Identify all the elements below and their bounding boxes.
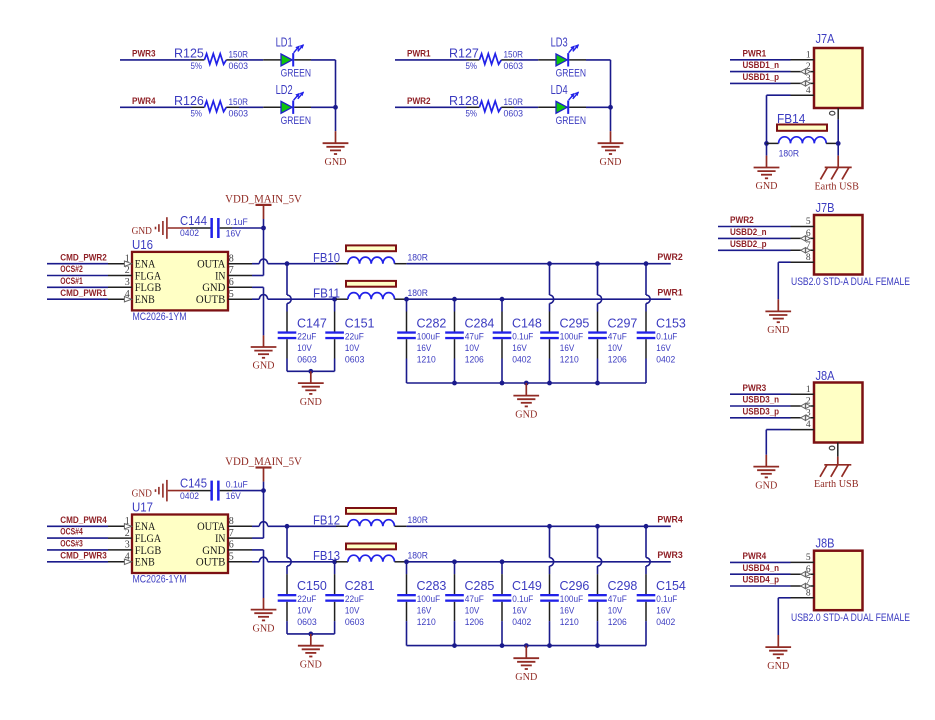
svg-text:ENA: ENA: [135, 521, 156, 533]
svg-text:MC2026-1YM: MC2026-1YM: [133, 311, 187, 323]
svg-text:GREEN: GREEN: [556, 115, 586, 127]
svg-text:C144: C144: [180, 214, 207, 228]
svg-text:GREEN: GREEN: [281, 68, 311, 80]
svg-text:GND: GND: [132, 226, 153, 237]
svg-text:OCS#1: OCS#1: [60, 276, 83, 287]
svg-text:0402: 0402: [512, 355, 531, 365]
svg-text:USBD4_n: USBD4_n: [743, 563, 780, 574]
svg-text:10V: 10V: [608, 606, 623, 616]
svg-text:FB11: FB11: [313, 287, 340, 301]
svg-text:22uF: 22uF: [297, 331, 316, 341]
svg-text:3: 3: [125, 540, 130, 551]
svg-text:150R: 150R: [229, 50, 249, 60]
svg-text:GND: GND: [755, 480, 777, 491]
svg-text:7: 7: [229, 265, 234, 276]
svg-text:GND: GND: [767, 661, 789, 672]
svg-text:8: 8: [229, 253, 234, 264]
svg-text:16V: 16V: [417, 343, 432, 353]
svg-text:USB2.0 STD-A DUAL FEMALE: USB2.0 STD-A DUAL FEMALE: [791, 612, 910, 624]
svg-text:ENB: ENB: [135, 294, 155, 306]
svg-text:PWR3: PWR3: [743, 383, 767, 394]
svg-text:10V: 10V: [465, 606, 480, 616]
svg-text:47uF: 47uF: [608, 331, 627, 341]
svg-text:5%: 5%: [191, 61, 203, 71]
svg-text:CMD_PWR1: CMD_PWR1: [60, 288, 107, 299]
svg-text:FLGA: FLGA: [135, 533, 162, 545]
svg-text:CMD_PWR2: CMD_PWR2: [60, 252, 107, 263]
svg-text:2: 2: [125, 528, 130, 539]
svg-text:PWR4: PWR4: [657, 514, 683, 525]
svg-text:LD1: LD1: [276, 36, 293, 50]
svg-text:LD2: LD2: [276, 83, 293, 97]
svg-text:PWR4: PWR4: [132, 96, 156, 107]
svg-text:OUTB: OUTB: [196, 557, 226, 569]
svg-text:1206: 1206: [608, 617, 627, 627]
svg-text:U16: U16: [132, 238, 153, 252]
svg-text:1210: 1210: [417, 355, 436, 365]
svg-text:C151: C151: [345, 316, 375, 330]
svg-text:47uF: 47uF: [465, 594, 484, 604]
svg-text:180R: 180R: [779, 148, 800, 158]
svg-text:Earth USB: Earth USB: [814, 478, 859, 490]
svg-text:0603: 0603: [229, 61, 249, 71]
svg-text:16V: 16V: [512, 343, 527, 353]
svg-text:6: 6: [229, 540, 234, 551]
svg-text:C297: C297: [608, 316, 638, 330]
svg-text:180R: 180R: [408, 515, 429, 525]
svg-text:16V: 16V: [560, 606, 575, 616]
svg-text:0603: 0603: [229, 108, 249, 118]
svg-text:2: 2: [125, 265, 130, 276]
svg-text:16V: 16V: [417, 606, 432, 616]
svg-text:CMD_PWR4: CMD_PWR4: [60, 515, 107, 526]
svg-text:0402: 0402: [180, 228, 199, 238]
svg-text:0.1uF: 0.1uF: [512, 594, 533, 604]
svg-text:GND: GND: [515, 409, 537, 420]
svg-text:180R: 180R: [408, 288, 429, 298]
svg-text:0.1uF: 0.1uF: [226, 217, 248, 228]
svg-text:1210: 1210: [560, 355, 579, 365]
svg-text:FB14: FB14: [777, 112, 805, 126]
svg-text:0402: 0402: [656, 355, 675, 365]
svg-text:PWR3: PWR3: [657, 550, 682, 561]
svg-text:C283: C283: [417, 579, 447, 593]
svg-text:150R: 150R: [504, 97, 524, 107]
svg-text:C296: C296: [560, 579, 590, 593]
svg-text:5: 5: [229, 289, 234, 300]
svg-text:R127: R127: [449, 46, 479, 60]
svg-text:FLGB: FLGB: [135, 545, 162, 557]
svg-text:16V: 16V: [226, 491, 241, 501]
svg-text:IN: IN: [215, 533, 226, 545]
svg-text:CMD_PWR3: CMD_PWR3: [60, 550, 107, 561]
svg-text:22uF: 22uF: [345, 594, 364, 604]
svg-text:0603: 0603: [297, 355, 317, 365]
svg-text:3: 3: [125, 277, 130, 288]
svg-text:10V: 10V: [297, 343, 312, 353]
svg-text:4: 4: [806, 86, 811, 96]
svg-text:LD3: LD3: [551, 36, 568, 50]
svg-text:GND: GND: [253, 623, 275, 634]
svg-text:USBD3_n: USBD3_n: [743, 395, 780, 406]
svg-text:MC2026-1YM: MC2026-1YM: [133, 574, 187, 586]
svg-text:5%: 5%: [466, 108, 478, 118]
svg-text:GND: GND: [202, 282, 225, 294]
svg-text:5: 5: [229, 552, 234, 563]
svg-text:0402: 0402: [656, 617, 675, 627]
svg-text:150R: 150R: [504, 50, 524, 60]
svg-text:10V: 10V: [345, 343, 360, 353]
svg-text:FB13: FB13: [313, 549, 340, 563]
svg-text:16V: 16V: [656, 343, 671, 353]
svg-text:5%: 5%: [191, 108, 203, 118]
svg-text:C150: C150: [297, 579, 327, 593]
svg-text:16V: 16V: [512, 606, 527, 616]
svg-text:0603: 0603: [504, 61, 524, 71]
svg-text:R126: R126: [174, 94, 204, 108]
svg-text:OUTB: OUTB: [196, 294, 226, 306]
svg-text:5: 5: [806, 217, 811, 227]
svg-text:ENA: ENA: [135, 259, 156, 271]
svg-text:IN: IN: [215, 270, 226, 282]
svg-text:6: 6: [229, 277, 234, 288]
svg-text:GREEN: GREEN: [281, 115, 311, 127]
svg-text:USBD4_p: USBD4_p: [743, 575, 780, 586]
svg-text:PWR1: PWR1: [743, 48, 767, 59]
svg-text:PWR2: PWR2: [407, 96, 431, 107]
svg-text:16V: 16V: [656, 606, 671, 616]
svg-text:GND: GND: [202, 545, 225, 557]
svg-text:GND: GND: [300, 659, 322, 670]
svg-text:GND: GND: [253, 361, 275, 372]
svg-text:Earth USB: Earth USB: [814, 181, 859, 193]
svg-text:OUTA: OUTA: [197, 259, 226, 271]
svg-text:GND: GND: [756, 181, 778, 192]
svg-text:0603: 0603: [345, 617, 365, 627]
svg-text:USBD3_p: USBD3_p: [743, 406, 780, 417]
svg-text:PWR3: PWR3: [132, 49, 156, 60]
svg-text:C298: C298: [608, 579, 638, 593]
svg-text:FB10: FB10: [313, 251, 340, 265]
svg-text:C284: C284: [465, 316, 495, 330]
svg-text:5: 5: [806, 553, 811, 563]
svg-text:10V: 10V: [465, 343, 480, 353]
svg-text:C285: C285: [465, 579, 495, 593]
svg-text:0402: 0402: [180, 491, 199, 501]
svg-text:0603: 0603: [345, 355, 365, 365]
svg-text:10V: 10V: [608, 343, 623, 353]
svg-text:GREEN: GREEN: [556, 68, 586, 80]
svg-text:C282: C282: [417, 316, 447, 330]
svg-text:GND: GND: [300, 397, 322, 408]
svg-text:J8B: J8B: [816, 537, 835, 551]
svg-text:C145: C145: [180, 476, 207, 490]
svg-text:C154: C154: [656, 579, 686, 593]
svg-text:100uF: 100uF: [417, 594, 441, 604]
svg-text:0.1uF: 0.1uF: [656, 594, 677, 604]
svg-text:180R: 180R: [408, 551, 429, 561]
svg-text:C295: C295: [560, 316, 590, 330]
svg-text:USBD2_p: USBD2_p: [730, 239, 767, 250]
svg-text:1: 1: [806, 385, 811, 395]
svg-text:USBD1_n: USBD1_n: [743, 60, 780, 71]
svg-text:FB12: FB12: [313, 514, 340, 528]
svg-text:FLGB: FLGB: [135, 282, 162, 294]
svg-text:16V: 16V: [560, 343, 575, 353]
svg-text:OCS#2: OCS#2: [60, 264, 83, 275]
svg-text:C281: C281: [345, 579, 375, 593]
svg-text:10V: 10V: [297, 606, 312, 616]
svg-text:16V: 16V: [226, 228, 241, 238]
svg-text:J7B: J7B: [816, 201, 835, 215]
svg-text:LD4: LD4: [551, 83, 568, 97]
svg-text:GND: GND: [600, 157, 622, 168]
svg-text:R128: R128: [449, 94, 479, 108]
svg-text:0402: 0402: [512, 617, 531, 627]
svg-text:1206: 1206: [608, 355, 627, 365]
svg-text:0.1uF: 0.1uF: [226, 480, 248, 491]
svg-text:R125: R125: [174, 46, 204, 60]
svg-text:22uF: 22uF: [345, 331, 364, 341]
svg-text:FLGA: FLGA: [135, 270, 162, 282]
svg-text:150R: 150R: [229, 97, 249, 107]
svg-text:GND: GND: [767, 325, 789, 336]
svg-text:22uF: 22uF: [297, 594, 316, 604]
svg-text:GND: GND: [132, 489, 153, 500]
svg-text:PWR4: PWR4: [743, 551, 767, 562]
svg-text:0603: 0603: [504, 108, 524, 118]
svg-text:USBD1_p: USBD1_p: [743, 72, 780, 83]
svg-text:0.1uF: 0.1uF: [656, 331, 677, 341]
svg-text:J7A: J7A: [816, 32, 836, 46]
svg-text:47uF: 47uF: [608, 594, 627, 604]
svg-text:C153: C153: [656, 316, 686, 330]
svg-text:0.1uF: 0.1uF: [512, 331, 533, 341]
svg-text:8: 8: [806, 253, 811, 263]
svg-text:5%: 5%: [466, 61, 478, 71]
svg-text:C148: C148: [512, 316, 542, 330]
svg-text:1210: 1210: [560, 617, 579, 627]
svg-text:USBD2_n: USBD2_n: [730, 227, 767, 238]
svg-text:100uF: 100uF: [560, 594, 584, 604]
svg-text:8: 8: [229, 516, 234, 527]
svg-text:1206: 1206: [465, 355, 484, 365]
svg-text:1: 1: [806, 50, 811, 60]
svg-text:PWR2: PWR2: [657, 252, 682, 263]
svg-text:1210: 1210: [417, 617, 436, 627]
svg-text:USB2.0 STD-A DUAL FEMALE: USB2.0 STD-A DUAL FEMALE: [791, 276, 910, 288]
svg-text:J8A: J8A: [816, 369, 836, 383]
svg-text:OCS#4: OCS#4: [60, 527, 83, 538]
svg-text:7: 7: [229, 528, 234, 539]
svg-text:GND: GND: [515, 672, 537, 683]
svg-text:8: 8: [806, 588, 811, 598]
svg-text:100uF: 100uF: [417, 331, 441, 341]
svg-text:PWR2: PWR2: [730, 215, 754, 226]
svg-text:100uF: 100uF: [560, 331, 584, 341]
svg-text:1206: 1206: [465, 617, 484, 627]
svg-text:0603: 0603: [297, 617, 317, 627]
svg-text:U17: U17: [132, 501, 153, 515]
svg-text:PWR1: PWR1: [407, 49, 431, 60]
svg-text:10V: 10V: [345, 606, 360, 616]
svg-text:47uF: 47uF: [465, 331, 484, 341]
svg-text:OCS#3: OCS#3: [60, 539, 83, 550]
svg-text:ENB: ENB: [135, 557, 155, 569]
svg-text:180R: 180R: [408, 252, 429, 262]
svg-text:C149: C149: [512, 579, 542, 593]
svg-text:C147: C147: [297, 316, 327, 330]
svg-text:GND: GND: [325, 157, 347, 168]
svg-text:OUTA: OUTA: [197, 521, 226, 533]
svg-text:4: 4: [806, 420, 811, 430]
svg-text:PWR1: PWR1: [657, 287, 683, 298]
